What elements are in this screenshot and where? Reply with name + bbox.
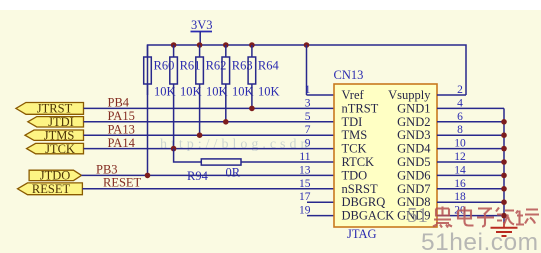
junction bus-pin10 [501,146,507,152]
pin number 8 [457,124,463,136]
pin number 3 [305,97,311,109]
wire RESET to pin15 [82,188,334,190]
svg-text:10K: 10K [180,85,202,99]
svg-text:GND5: GND5 [397,155,430,169]
wire pin18 GND8 [437,201,504,203]
svg-text:2: 2 [457,84,463,96]
pin number 5 [305,111,311,123]
pin number 4 [457,97,463,109]
resistor R64 [248,45,279,108]
svg-text:GND7: GND7 [397,182,430,196]
junction rail-R64 [249,42,255,48]
svg-text:9: 9 [305,138,311,150]
wire pin6 GND2 [437,121,504,123]
svg-text:14: 14 [454,164,466,176]
resistor R94 [187,159,241,183]
svg-text:16: 16 [454,178,466,190]
net label PA15 [108,109,135,123]
pin number 16 [454,178,466,190]
pin number 12 [454,151,466,163]
wire pin2 Vsupply [437,94,466,96]
svg-text:R60: R60 [154,59,175,73]
wire JTCK to pin9 [84,148,335,150]
junction R60-JTDO [145,173,151,179]
svg-text:JTDO: JTDO [40,169,71,183]
pin number 1 [305,84,311,96]
wire Vref drop [306,45,308,95]
pin number 19 [299,205,311,217]
pin number 14 [454,164,466,176]
svg-text:JTDI: JTDI [48,115,74,129]
wire R61 to R94 [174,149,202,162]
svg-text:nTRST: nTRST [342,101,379,115]
wire 3V3 rail [148,45,467,95]
junction rail-R63 [223,42,229,48]
port JTRST [16,102,84,116]
svg-text:3V3: 3V3 [191,18,213,32]
junction bus-pin18 [501,199,507,205]
wire pin8 GND3 [437,134,504,136]
svg-text:3: 3 [305,97,311,109]
junction bus-pin12 [501,159,507,165]
junction rail-Vref [304,42,310,48]
ground symbol [491,222,518,236]
svg-text:5: 5 [305,111,311,123]
resistor R60 [144,45,176,175]
pin number 18 [454,191,466,203]
svg-text:6: 6 [457,111,463,123]
svg-text:8: 8 [457,124,463,136]
svg-text:PA13: PA13 [108,122,135,136]
svg-text:JTCK: JTCK [45,142,75,156]
port JTMS [25,128,84,142]
svg-text:R63: R63 [232,59,253,73]
svg-text:GND3: GND3 [397,128,430,142]
svg-text:10K: 10K [206,85,228,99]
svg-text:10: 10 [454,138,466,150]
net label PA13 [108,122,135,136]
pin number 6 [457,111,463,123]
svg-text:4: 4 [457,97,463,109]
pin number 13 [299,164,311,176]
net label RESET [103,176,142,190]
port RESET [18,182,83,196]
wire pin20 GND9 [437,215,504,217]
pin number 2 [457,84,463,96]
net label PA14 [108,136,136,150]
wire pin14 GND6 [437,174,504,176]
svg-text:18: 18 [454,191,466,203]
svg-text:DBGACK: DBGACK [342,209,395,223]
wire JTDO to pin13 [82,174,335,176]
svg-text:12: 12 [454,151,466,163]
svg-text:CN13: CN13 [334,68,364,82]
junction bus-pin6 [501,119,507,125]
wire pin10 GND4 [437,148,504,150]
junction bus-pin14 [501,173,507,179]
connector CN13 [334,68,438,241]
watermark 51hei.com [421,229,539,253]
wire pin17 stub [307,201,334,203]
svg-text:TCK: TCK [342,142,367,156]
pin number 9 [305,138,311,150]
junction R63-JTDI [223,119,229,125]
pin number 17 [299,191,311,203]
svg-text:Vsupply: Vsupply [388,88,431,102]
junction bus-pin20 [501,213,507,219]
port JTCK [27,142,84,156]
svg-text:PA14: PA14 [108,136,136,150]
resistor R61 [170,45,202,149]
watermark 51 [407,203,428,227]
port JTDI [28,115,84,129]
pin number 11 [299,151,310,163]
junction rail-3V3 [197,42,203,48]
svg-text:10K: 10K [258,85,280,99]
svg-text:RESET: RESET [32,182,71,196]
power symbol 3V3 [191,18,213,45]
pin number 15 [299,178,311,190]
resistor R62 [196,45,228,135]
svg-text:R62: R62 [206,59,227,73]
wire JTDI to pin5 [84,121,335,123]
svg-text:RESET: RESET [103,176,142,190]
svg-text:JTAG: JTAG [347,227,377,241]
svg-text:Vref: Vref [342,88,365,102]
wire JTMS to pin7 [84,134,335,136]
junction R62-JTMS [197,132,203,138]
svg-text:GND4: GND4 [397,142,431,156]
svg-text:19: 19 [299,205,311,217]
junction rail-R61 [171,42,177,48]
svg-text:1: 1 [305,84,311,96]
net label PB3 [96,162,118,176]
svg-text:nSRST: nSRST [342,182,378,196]
junction bus-pin8 [501,132,507,138]
svg-text:GND1: GND1 [397,101,430,115]
svg-text:GND2: GND2 [397,115,430,129]
pin number 20 [454,205,466,217]
wire JTRST to pin3 [84,107,335,109]
svg-text:DBGRQ: DBGRQ [342,195,386,209]
svg-text:11: 11 [299,151,310,163]
svg-text:10K: 10K [232,85,254,99]
svg-text:13: 13 [299,164,311,176]
pin number 7 [305,124,311,136]
svg-text:15: 15 [299,178,311,190]
svg-text:RTCK: RTCK [342,155,375,169]
svg-text:7: 7 [305,124,311,136]
svg-text:PB4: PB4 [108,96,130,110]
watermark chinese chars [433,207,539,228]
resistor R63 [222,45,254,122]
wire pin4 GND1 [437,107,504,109]
wire ground bus [503,108,505,223]
svg-text:51hei.com: 51hei.com [421,229,539,253]
wire pin1 [307,94,335,96]
junction bus-pin16 [501,186,507,192]
svg-text:TDI: TDI [342,115,363,129]
net label PB4 [108,96,130,110]
faint url watermark [160,137,312,152]
svg-text:JTMS: JTMS [44,128,75,142]
svg-text:R64: R64 [258,59,280,73]
junction R61-JTCK [171,146,177,152]
svg-text:10K: 10K [154,85,176,99]
svg-text:GND6: GND6 [397,168,430,182]
svg-text:http://blog.csdn: http://blog.csdn [160,137,312,152]
svg-text:JTRST: JTRST [37,102,73,116]
svg-text:PB3: PB3 [96,162,118,176]
svg-text:PA15: PA15 [108,109,135,123]
wire R94 to pin11 [241,161,334,163]
port JTDO [29,169,81,183]
svg-text:R61: R61 [180,59,201,73]
svg-text:51: 51 [407,203,428,227]
junction R64-JTRST [249,106,255,112]
wire pin19 stub [307,215,334,217]
svg-text:17: 17 [299,191,311,203]
wire pin12 GND5 [437,161,504,163]
pin number 10 [454,138,466,150]
svg-text:0R: 0R [226,166,241,180]
svg-text:TMS: TMS [342,128,368,142]
wire pin16 GND7 [437,188,504,190]
svg-text:TDO: TDO [342,168,368,182]
